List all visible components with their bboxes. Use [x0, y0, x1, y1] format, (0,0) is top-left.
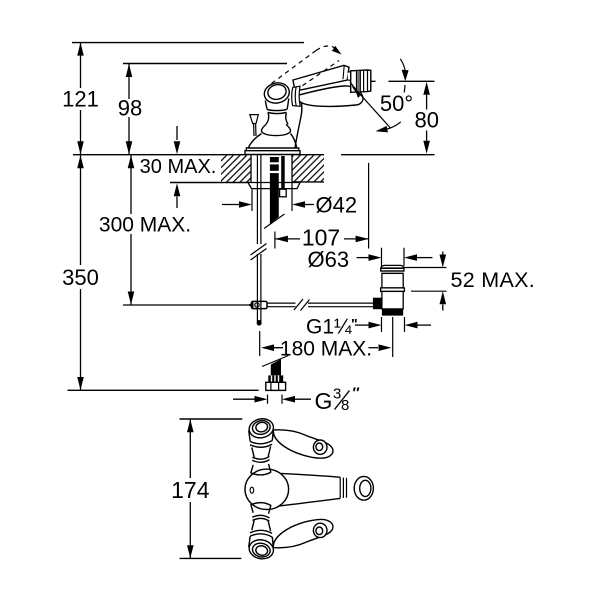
- dimension 30 MAX upper arrow: [176, 126, 178, 140]
- dimension Ø42 right arrowhead: [292, 201, 305, 208]
- upper stem flare sides: [251, 464, 271, 473]
- dimension 107 extension line left (faucet axis): [274, 232, 276, 249]
- svg-text:50°: 50°: [380, 91, 413, 116]
- G3/8 left arrow: [233, 398, 255, 400]
- top view: aerator outer: [354, 476, 373, 500]
- dimension 107 extension line right (spout outlet axis): [368, 163, 370, 249]
- lower knob inner: [255, 545, 268, 556]
- knob inner ellipse: [266, 83, 287, 101]
- drain collar ring: [381, 288, 405, 292]
- pull rod break marks: [251, 244, 267, 261]
- G1 1/4 left arrowhead: [369, 322, 382, 329]
- pop-up knob on base: [250, 115, 258, 136]
- dimension 98 arrow down: [126, 141, 133, 154]
- dimension 107 right arrowhead: [356, 236, 369, 243]
- lower stem band 1: [250, 530, 272, 537]
- 52 MAX extension lines: [404, 268, 447, 292]
- G1 1/4 right arrowhead: [405, 322, 418, 329]
- lower stem band 3: [251, 503, 272, 506]
- dimension 80 line: [426, 95, 428, 141]
- dashed swivel arc: [316, 46, 335, 51]
- dimension 107 left arrowhead: [275, 236, 288, 243]
- dimension Ø63 right arrow: [417, 257, 433, 259]
- lower stem neck sides: [252, 520, 271, 531]
- 180 MAX left extension: [259, 331, 261, 356]
- upper knob outer: [248, 417, 276, 440]
- dimension 80 up arrowhead: [423, 82, 430, 95]
- 50 degree bottom arc with arrow: [378, 122, 401, 131]
- top view upper handle group: [248, 417, 333, 475]
- pop-up drain assembly: [373, 265, 405, 315]
- svg-text:30 MAX.: 30 MAX.: [140, 156, 217, 178]
- top view: spout bottom edge: [279, 498, 341, 506]
- spout body teardrop: [297, 86, 363, 106]
- svg-text:121: 121: [62, 87, 99, 112]
- pop-up linkage horizontal rod: [267, 303, 373, 307]
- upper lever ball: [313, 440, 327, 454]
- dimension 350 arrow up: [77, 155, 84, 168]
- label G3/8: fraction slash: [335, 391, 350, 410]
- hose break line: [262, 356, 289, 367]
- upper lever ball inner: [316, 443, 323, 451]
- svg-text:98: 98: [118, 96, 142, 121]
- 52 MAX lower arrowhead: [440, 291, 447, 304]
- G1 1/4 verticals below drain: [382, 317, 405, 357]
- dimension 350 line: [80, 155, 82, 390]
- supply hose stub: [281, 156, 285, 189]
- top view: spout top edge: [281, 473, 341, 477]
- dashed raised spout edge upper (from handle): [272, 51, 317, 84]
- svg-text:Ø42: Ø42: [316, 193, 358, 218]
- knob outer ellipse: [262, 80, 291, 105]
- reference line top (121 max height): [72, 42, 304, 44]
- neck hourglass: [266, 113, 288, 125]
- upper stem band 3: [251, 472, 272, 475]
- hole left edge: [250, 155, 252, 183]
- dimension Ø42 extension lines: [252, 183, 292, 211]
- label G3/8: [315, 384, 360, 414]
- 180 MAX right shaft: [369, 347, 379, 349]
- 180 MAX right arrowhead: [379, 344, 392, 351]
- counter surface line: [73, 154, 435, 156]
- dashed raised spout edge lower (crosses tube): [296, 61, 340, 91]
- dimension 121 arrow up: [77, 43, 84, 56]
- dimension Ø42 left arrowhead: [239, 201, 252, 208]
- hose end fitting: [280, 189, 287, 197]
- dimension 121 arrow down: [77, 141, 84, 154]
- flexible hose end (black): [271, 359, 281, 375]
- 52 MAX lower arrow: [442, 305, 444, 311]
- dimension 174 up arrowhead: [187, 419, 194, 432]
- lower knob mid ring: [251, 542, 271, 559]
- svg-text:8: 8: [341, 397, 349, 414]
- base skirt right: [291, 134, 297, 149]
- svg-text:52 MAX.: 52 MAX.: [451, 268, 536, 292]
- clamp screw circle: [255, 303, 259, 307]
- aerator shading band: [357, 71, 359, 92]
- reference line spout outlet (98): [123, 63, 287, 65]
- top view: pull rod hole: [250, 487, 254, 493]
- 80 reference line: [371, 80, 435, 82]
- dimension 30 MAX lower arrow: [176, 197, 178, 209]
- drain lower body: [382, 291, 403, 309]
- upper stem band 1: [250, 441, 272, 448]
- spout tube (lowered position): [293, 65, 349, 91]
- body right curve: [295, 100, 302, 149]
- upper lever: [273, 430, 333, 458]
- pull rod vertical: [257, 155, 261, 322]
- svg-text:174: 174: [171, 477, 210, 503]
- dimension 350 arrow down: [77, 377, 84, 390]
- lower stem flare sides: [251, 505, 271, 514]
- 30 MAX lower arrowhead: [174, 183, 181, 196]
- drain rod nub: [373, 298, 382, 310]
- drain cap rim line: [381, 267, 404, 269]
- counter underside line: [170, 181, 324, 184]
- top view lower handle group (mirror): [248, 503, 333, 561]
- dimension 300 MAX line: [130, 155, 132, 304]
- drain neck: [381, 271, 404, 273]
- dimension Ø63 ticks: [382, 248, 405, 266]
- base skirt left: [248, 134, 261, 149]
- rod break marks: [294, 299, 310, 311]
- upper stem cylinder sides: [249, 431, 274, 442]
- lower knob outer: [248, 538, 276, 561]
- stud break line: [264, 214, 285, 229]
- aerator step ring: [348, 72, 351, 81]
- dimension 98 arrow up: [126, 64, 133, 77]
- stud thread band 2: [269, 171, 279, 173]
- hatch fill left: [221, 155, 251, 182]
- hatch left block: [221, 155, 251, 182]
- dimension 174 line: [189, 419, 191, 558]
- 180 MAX left arrowhead: [261, 344, 274, 351]
- G3/8 right arrowhead: [282, 396, 295, 403]
- rod break slashes: [294, 299, 310, 311]
- G3/8 right arrow: [295, 398, 312, 400]
- extension line rod level (300 MAX bottom): [123, 304, 250, 306]
- G3/8 left arrowhead: [255, 396, 268, 403]
- G1 1/4 left arrow: [355, 324, 369, 326]
- drain upper body: [382, 273, 403, 288]
- top view: spout rings: [340, 477, 346, 498]
- svg-text:Ø63: Ø63: [308, 247, 350, 272]
- bell: [262, 125, 291, 136]
- upper stem neck sides: [252, 447, 271, 458]
- G3/8 dimension ticks: [268, 395, 283, 404]
- svg-text:350: 350: [62, 265, 99, 290]
- hose ribbed collar: [268, 375, 283, 382]
- svg-text:180 MAX.: 180 MAX.: [280, 338, 372, 361]
- upper knob mid ring: [251, 419, 271, 436]
- knob body rings: [267, 109, 287, 113]
- aerator body: [351, 70, 371, 92]
- 174 top reference line: [180, 418, 243, 420]
- pull rod tip: [257, 320, 262, 326]
- hole right edge: [291, 155, 293, 182]
- drain bottom band: [382, 309, 403, 316]
- spout collar middle band: [295, 87, 296, 106]
- svg-text:G: G: [315, 388, 333, 414]
- dimension 80 down arrowhead: [423, 141, 430, 154]
- dimension Ø63 right arrowhead: [404, 254, 417, 261]
- upper stem band 2: [252, 456, 269, 462]
- lower lever ball: [313, 523, 327, 537]
- spout tube end face edge: [343, 66, 344, 80]
- top view: body blob: [245, 469, 289, 509]
- aerator ring lines: [357, 70, 368, 92]
- 50 degree top arc with arrow: [400, 59, 405, 93]
- hatch fill right: [292, 155, 324, 182]
- dimension 98 line: [128, 64, 130, 154]
- dimension Ø42 right arrow: [304, 204, 314, 206]
- hose collar ribs: [272, 375, 279, 382]
- shading wedge under aerator: [350, 82, 361, 98]
- 52 MAX upper arrowhead: [440, 255, 447, 268]
- rod clamp: [252, 301, 268, 308]
- mounting stud (threaded): [270, 157, 279, 224]
- spout collar rings: [292, 86, 301, 106]
- faucet base plinth: [245, 148, 300, 155]
- stud thread band 1: [269, 162, 279, 164]
- 50 degree leader line: [354, 87, 391, 128]
- nut facet lines: [271, 382, 279, 390]
- svg-text:80: 80: [415, 108, 439, 133]
- hatch right block: [292, 155, 324, 182]
- 50 degree bottom arc arrowhead: [376, 126, 388, 132]
- top view: aerator inner: [360, 480, 371, 496]
- dimension 121 line: [80, 43, 82, 155]
- 30 MAX upper arrowhead: [174, 141, 181, 154]
- locking flange under counter: [248, 183, 300, 189]
- lower stem band 2: [252, 515, 269, 521]
- hose nut G3/8: [266, 382, 286, 390]
- dashed arc arrowhead: [332, 46, 342, 55]
- svg-text:300 MAX.: 300 MAX.: [99, 214, 191, 237]
- dimension 300 MAX arrow up: [128, 155, 135, 168]
- lower stem cylinder sides: [249, 536, 274, 547]
- lower lever: [273, 519, 333, 547]
- 174 bottom reference line: [180, 557, 242, 559]
- svg-text:″: ″: [353, 384, 360, 401]
- upper knob inner: [255, 421, 268, 432]
- dimension Ø42 left arrow: [222, 204, 240, 206]
- dimension 174 down arrowhead: [187, 545, 194, 558]
- dimension Ø63 left arrowhead: [369, 254, 382, 261]
- svg-text:G1¼": G1¼": [306, 316, 358, 339]
- lower lever ball inner: [316, 527, 323, 535]
- knob body sides: [265, 99, 289, 110]
- dimension 107 line: [275, 238, 369, 240]
- G1 1/4 right arrow: [417, 324, 431, 326]
- bottom reference line (350): [68, 389, 259, 391]
- rod break gap: [296, 302, 309, 309]
- 52 MAX upper arrow: [442, 252, 444, 255]
- dimension Ø63 left arrow: [357, 257, 370, 259]
- clamp left tip: [248, 302, 253, 309]
- drain cap: [381, 265, 404, 271]
- dimension 300 MAX arrow down: [128, 292, 135, 305]
- hose collar body: [268, 375, 283, 382]
- 180 MAX dimension: [264, 347, 283, 349]
- 50 degree top arc arrowhead: [402, 70, 409, 82]
